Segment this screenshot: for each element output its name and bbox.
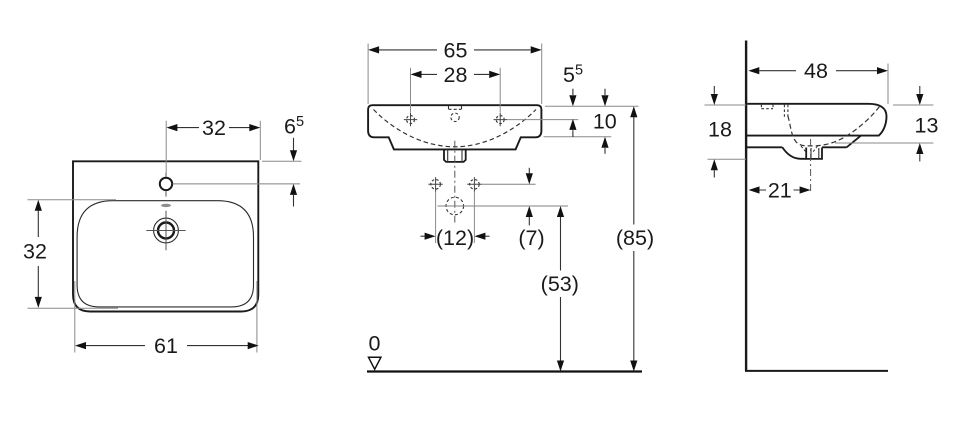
dimension 13 extension lines bbox=[835, 105, 934, 143]
apron right slant (side) bbox=[847, 136, 861, 148]
svg-text:13: 13 bbox=[915, 114, 939, 138]
bowl interior dashed curve (side) bbox=[788, 106, 880, 146]
dimension 28 line bbox=[422, 73, 490, 75]
dimension 5.5 arrows bbox=[572, 89, 574, 95]
svg-text:5: 5 bbox=[296, 114, 304, 130]
dimension 21 line bbox=[760, 189, 800, 191]
dimension (7) arrows bbox=[528, 168, 530, 174]
drain centerline dashed (side) bbox=[810, 139, 812, 193]
dimension (12) arrows bbox=[421, 235, 426, 237]
left fixing hole cross bbox=[404, 113, 417, 126]
dimension (85) line bbox=[633, 115, 635, 369]
svg-text:5: 5 bbox=[575, 63, 583, 79]
svg-text:65: 65 bbox=[444, 38, 468, 62]
rim bottom reference line (for 10) bbox=[544, 136, 612, 138]
dimension 10 arrows bbox=[604, 89, 606, 95]
dimension 65 arrows bbox=[368, 46, 379, 53]
svg-text:(53): (53) bbox=[541, 272, 579, 296]
overflow slot dashed (front) bbox=[449, 106, 462, 109]
dimension 18 arrows bbox=[713, 86, 715, 94]
dimension (53) arrows bbox=[557, 206, 564, 217]
dimension 61 arrows bbox=[75, 342, 86, 349]
dimension 32 (plan left) line bbox=[37, 204, 39, 303]
dimension 32 (plan left) extension lines bbox=[28, 200, 119, 308]
drain outlet (side) bbox=[806, 148, 822, 159]
dimension 32 (plan left) arrows bbox=[35, 200, 42, 211]
svg-text:32: 32 bbox=[202, 116, 226, 140]
basin rim band (side) bbox=[746, 104, 886, 136]
tap hole reference line to 6.5 dim bbox=[173, 183, 300, 185]
dimension 18 extension lines bbox=[705, 105, 747, 159]
supply reference line (to (7)) bbox=[482, 183, 536, 185]
dimension 32 (plan top) extension lines bbox=[166, 121, 260, 173]
basin outline (front) bbox=[368, 105, 541, 149]
drain outlet inner walls (side) bbox=[811, 148, 819, 159]
apron bottom right (side) bbox=[822, 146, 847, 148]
dimension 48 arrows bbox=[748, 67, 759, 74]
trap centerline dashed bbox=[454, 141, 456, 223]
dimension 32 (plan top) arrows bbox=[166, 124, 177, 131]
dimension 65 line bbox=[379, 49, 531, 51]
dimension (53) line bbox=[560, 215, 562, 369]
trap outlet (front) bbox=[444, 149, 466, 162]
svg-text:5: 5 bbox=[563, 63, 575, 87]
left supply cross bbox=[428, 177, 442, 191]
dimension 6.5 arrows bbox=[293, 138, 295, 151]
dimension 13 arrows bbox=[919, 86, 921, 94]
dimension 61 line bbox=[80, 345, 255, 347]
dimension 28 extension lines bbox=[411, 68, 501, 113]
trap outlet inner walls bbox=[448, 149, 462, 162]
overflow slot dashed (side) bbox=[784, 105, 788, 119]
right fixing hole cross bbox=[494, 113, 508, 126]
drain outer circle bbox=[154, 218, 179, 243]
svg-text:32: 32 bbox=[23, 240, 47, 264]
drain cone dashed (side) bbox=[801, 146, 818, 153]
svg-text:18: 18 bbox=[708, 118, 732, 142]
dimension (12) extension lines bbox=[436, 192, 475, 244]
dimension 6.5 extension line (top edge) bbox=[262, 160, 302, 162]
waste outlet reference line (to (7)/(53)) bbox=[438, 205, 569, 207]
trap cover arc (side) bbox=[782, 147, 806, 159]
apron bottom left (side) bbox=[746, 146, 782, 148]
bowl interior dashed curve (front) bbox=[374, 110, 537, 147]
svg-text:61: 61 bbox=[154, 334, 178, 358]
svg-text:(12): (12) bbox=[436, 226, 474, 250]
dimension 48 extension line bbox=[887, 64, 889, 105]
ground line bbox=[367, 370, 642, 372]
svg-text:(7): (7) bbox=[518, 226, 544, 250]
svg-text:(85): (85) bbox=[616, 226, 654, 250]
right supply cross bbox=[467, 177, 481, 191]
dimension 48 line bbox=[760, 70, 878, 72]
svg-text:48: 48 bbox=[804, 59, 828, 83]
floor line bbox=[745, 370, 888, 372]
svg-text:6: 6 bbox=[284, 115, 296, 139]
basin outer outline (plan) bbox=[73, 161, 258, 311]
waste outlet dashed circle bbox=[446, 197, 464, 215]
wall line bbox=[745, 41, 747, 371]
dimension 28 arrows bbox=[411, 71, 422, 78]
drain crosshairs bbox=[146, 211, 185, 250]
fixing hole reference line (to 5.5 dim) bbox=[507, 119, 578, 121]
tap hole (plan) bbox=[160, 178, 172, 190]
dimension 65 extension lines bbox=[368, 44, 542, 105]
svg-text:0: 0 bbox=[369, 332, 381, 356]
svg-text:28: 28 bbox=[444, 63, 468, 87]
dimension (85) arrows bbox=[630, 106, 637, 117]
dimension 32 (plan top) line bbox=[171, 127, 256, 129]
drain inner circle bbox=[158, 223, 174, 239]
overflow slot (plan) bbox=[161, 204, 171, 207]
svg-text:10: 10 bbox=[593, 109, 617, 133]
bowl outline (plan) bbox=[77, 201, 253, 307]
dimension 61 extension lines bbox=[75, 281, 257, 353]
tap hole dashed (side) bbox=[761, 105, 773, 109]
tap hole centerline ticks bbox=[165, 173, 167, 197]
datum triangle bbox=[369, 357, 381, 369]
overflow hole dashed circle (front) bbox=[451, 113, 459, 121]
top edge reference line (right, for 5.5/10/(85)) bbox=[545, 105, 639, 107]
dimension 21 arrows bbox=[749, 186, 760, 193]
svg-text:21: 21 bbox=[768, 179, 792, 203]
